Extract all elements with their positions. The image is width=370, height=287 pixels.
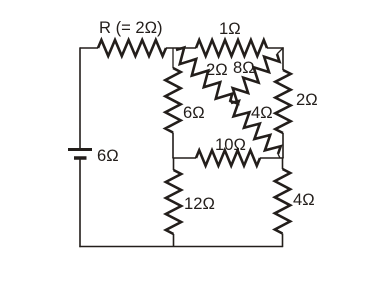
- wire bottom: [79, 246, 282, 248]
- wire node J2 down to 12Ω: [173, 158, 175, 170]
- battery V1 (labelled 6Ω): [68, 148, 92, 151]
- wire node J2 to 10Ω: [172, 157, 196, 159]
- resistor 2Ω diagonal: [176, 48, 232, 103]
- svg-text:2Ω: 2Ω: [206, 60, 228, 79]
- svg-text:6Ω: 6Ω: [183, 103, 205, 122]
- wire left vertical (battery branch, upper): [79, 47, 81, 149]
- wire between R and node J1 / 1Ω: [166, 47, 196, 49]
- resistor 8Ω diagonal: [230, 54, 280, 104]
- svg-text:2Ω: 2Ω: [296, 90, 318, 109]
- resistor R (= 2Ω): [98, 40, 166, 56]
- svg-text:10Ω: 10Ω: [215, 135, 246, 154]
- wire 6Ω bottom to node J2: [172, 133, 174, 159]
- wire 10Ω to node R2: [260, 157, 284, 159]
- wire top-right corner to 8Ω diagonal: [277, 48, 283, 54]
- svg-text:4Ω: 4Ω: [251, 103, 273, 122]
- resistor 2Ω right vertical: [275, 70, 290, 133]
- resistor 1Ω top: [196, 40, 267, 56]
- svg-text:12Ω: 12Ω: [184, 194, 215, 213]
- wire 4Ω diagonal end to node R2: [278, 154, 280, 158]
- resistor 12Ω vertical: [166, 170, 181, 234]
- wire 4Ω bottom to bottom-right corner: [282, 234, 284, 248]
- svg-text:R (= 2Ω): R (= 2Ω): [99, 18, 163, 37]
- svg-text:4Ω: 4Ω: [293, 190, 315, 209]
- svg-text:8Ω: 8Ω: [233, 58, 255, 77]
- wire 2Ω bottom to node R2: [282, 133, 284, 158]
- svg-text:1Ω: 1Ω: [219, 19, 241, 38]
- resistor 4Ω right vertical: [275, 169, 290, 234]
- resistor 6Ω vertical: [165, 68, 180, 133]
- svg-text:6Ω: 6Ω: [97, 146, 119, 165]
- resistor 4Ω diagonal: [231, 101, 281, 154]
- wire left vertical (battery branch, lower): [79, 158, 81, 247]
- resistor 10Ω: [196, 150, 260, 165]
- wire 1Ω to top-right corner: [267, 47, 284, 49]
- wire 12Ω bottom to bottom rail: [173, 234, 175, 247]
- wire node R2 down to 4Ω: [282, 158, 284, 169]
- wire node J1 down to 6Ω: [172, 48, 174, 68]
- wire top-right corner down to 2Ω: [282, 47, 284, 70]
- wire top-left horizontal: [80, 47, 98, 49]
